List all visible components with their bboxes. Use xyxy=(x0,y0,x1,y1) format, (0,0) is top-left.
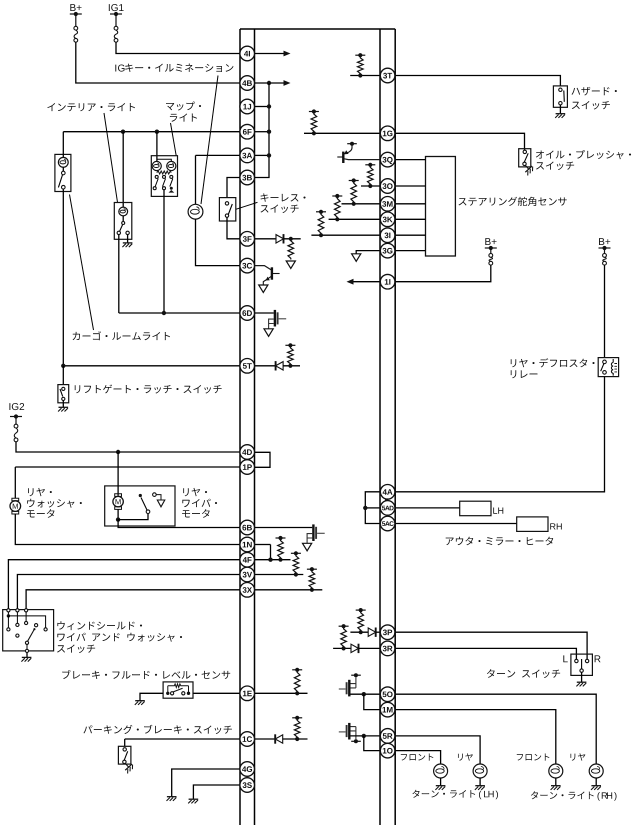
wire cargo lamp to contact xyxy=(62,167,64,171)
wire LH rear lamp to ground xyxy=(479,778,481,786)
ground LH rear turn light xyxy=(475,786,485,790)
wiper switch inner feed wire xyxy=(8,616,45,628)
junction 4B rail xyxy=(267,81,271,85)
connector pin 3M xyxy=(380,197,395,212)
resistor R5 pull-up 3X xyxy=(307,567,317,592)
liftgate switch contacts xyxy=(62,387,65,400)
label keyless line1 xyxy=(261,193,306,201)
label keyless line2 xyxy=(261,204,299,213)
wire wiper junction to pivot xyxy=(118,514,148,520)
wire 5R xyxy=(351,735,381,737)
motor rear wiper xyxy=(113,494,123,510)
connector pin 3B xyxy=(240,170,255,185)
label wiper switch line3 xyxy=(57,644,95,653)
lamp turn light LH front xyxy=(434,764,448,778)
map light bottom contacts xyxy=(153,187,165,190)
wire IG2 to 4D xyxy=(16,442,240,452)
turn switch contacts xyxy=(575,659,589,672)
label turn light RH xyxy=(531,791,617,800)
label rear washer line2 xyxy=(27,499,82,508)
transistor Q1 at 3C xyxy=(255,266,280,285)
wire 3T left xyxy=(350,75,380,77)
power feed B+ for defroster relay xyxy=(599,238,611,253)
turn switch xyxy=(571,654,593,675)
junction block bus cap xyxy=(240,28,395,30)
label oil pressure line1 xyxy=(536,150,631,159)
junction wiper motor on 4D xyxy=(116,450,120,454)
wiper switch top contacts xyxy=(7,609,28,612)
wire 1P to washer motor xyxy=(14,467,16,498)
wire sensor to ground xyxy=(140,693,163,700)
wire 6F to map light xyxy=(156,132,158,162)
wire 3O left xyxy=(361,185,380,187)
rear defroster relay xyxy=(598,358,618,377)
wire 6F to cargo lamp xyxy=(62,132,64,158)
label rear LH xyxy=(458,753,473,760)
relay coil xyxy=(612,359,614,376)
wire 3S to ground xyxy=(193,785,240,799)
wire 5AC to RH heater xyxy=(395,523,517,525)
wire interior lamp to lever xyxy=(122,216,124,222)
bridge 4D to 1P xyxy=(255,452,271,467)
lamp cargo room light xyxy=(58,157,68,167)
wiper park contact dot xyxy=(139,494,142,497)
junction interior light xyxy=(121,130,125,134)
lamp turn light RH front xyxy=(549,764,563,778)
label rear wiper line3 xyxy=(182,509,210,518)
lamp turn light LH rear xyxy=(473,764,487,778)
resistor R4 pull-up 3V xyxy=(291,551,301,576)
label rear washer line3 xyxy=(27,509,55,518)
leader line to keyless switch xyxy=(236,202,258,209)
wire 4I output xyxy=(255,53,284,55)
map light resistor squiggle xyxy=(157,171,172,174)
wiper switch inner wire 4 xyxy=(25,612,27,621)
label L xyxy=(563,655,567,662)
label IG2 xyxy=(9,403,24,410)
wire 5T right xyxy=(255,365,276,367)
leader line to interior light xyxy=(104,113,118,202)
resistor R9 pull-up 1G xyxy=(309,109,319,135)
stub 3A right xyxy=(255,154,270,156)
parking brake lever xyxy=(124,751,128,760)
wiper park switch lever xyxy=(141,498,147,511)
ground hazard switch xyxy=(555,114,565,118)
wire B+ to defroster relay xyxy=(604,265,606,358)
dot between 4A and 5AD xyxy=(385,498,388,501)
wiper park arrow symbol xyxy=(156,495,161,500)
sensor switch xyxy=(166,686,190,695)
resistor R15 pull-up 3R xyxy=(339,624,349,650)
connector pin 6F xyxy=(240,124,255,139)
wire LH front lamp to ground xyxy=(440,778,442,786)
ground oil pressure switch xyxy=(522,162,535,175)
map light lever 1 xyxy=(155,179,158,187)
interior light switch lever xyxy=(120,224,123,231)
output transistor at 5R xyxy=(339,723,361,743)
wire 1E right xyxy=(255,692,308,694)
junction cargo light / liftgate xyxy=(61,364,65,368)
connector pin 1M xyxy=(380,702,395,717)
label rear wiper line2 xyxy=(182,499,217,507)
rail 4B to 3B xyxy=(255,83,270,178)
connector pin 3R xyxy=(380,641,395,656)
hazard switch contacts xyxy=(559,88,562,105)
parking brake switch xyxy=(118,746,130,764)
arrow 4B xyxy=(284,80,291,86)
wire 3T to hazard switch xyxy=(395,76,560,86)
wire 6F xyxy=(63,131,240,133)
resistor R12 pull-up 3K xyxy=(332,194,342,222)
wire 1C right xyxy=(255,738,276,740)
connector pin 1G xyxy=(380,126,395,141)
resistor R1 below 3F xyxy=(288,237,294,260)
ground liftgate switch xyxy=(58,407,68,411)
label wiper switch line1 xyxy=(57,621,142,630)
wire washer motor to 1N xyxy=(15,514,240,545)
keyless switch xyxy=(219,198,235,221)
connector pin 1O xyxy=(380,743,395,758)
wire 4G to ground xyxy=(172,769,240,797)
label IG key illumination xyxy=(115,63,233,72)
power feed IG2 xyxy=(10,414,22,424)
ground 3F resistor xyxy=(286,261,295,269)
wire turn switch to ground xyxy=(581,672,583,682)
connector pin 5R xyxy=(380,729,395,744)
wire 3K left xyxy=(329,218,380,220)
wire hazard switch to ground xyxy=(559,105,561,114)
wire 3A to illumination lamp xyxy=(195,155,197,204)
stub 5AD left xyxy=(365,507,380,509)
map light switch contacts xyxy=(155,175,173,178)
wiper switch common wire xyxy=(26,644,28,649)
leader line to illumination lamp xyxy=(201,76,218,205)
liftgate latch switch xyxy=(58,385,69,403)
junction map light on 6D xyxy=(162,311,166,315)
junction map light xyxy=(155,130,159,134)
oil pressure switch lever xyxy=(524,153,528,162)
power feed IG1 xyxy=(109,4,124,26)
label map light line1 xyxy=(166,101,201,110)
label hazard line2 xyxy=(572,101,610,110)
oil pressure switch contacts xyxy=(523,150,527,165)
wire 4D to wiper motor xyxy=(117,452,119,496)
ground brake fluid sensor xyxy=(135,701,145,705)
connector pin 3O xyxy=(380,179,395,194)
leader line to cargo light xyxy=(70,195,94,331)
power feed B+ top-left connector xyxy=(74,26,78,42)
ground RH rear turn light xyxy=(591,786,601,790)
power feed B+ top-left xyxy=(70,4,82,26)
resistor R8 pull-up 3T xyxy=(355,53,365,77)
cargo light switch contacts xyxy=(62,171,66,189)
power feed IG1 connector xyxy=(114,26,118,42)
label R xyxy=(595,655,601,662)
wire cargo light to 5T xyxy=(62,189,64,366)
resistor R2 pull-up 5T xyxy=(285,343,295,368)
junction 5O/1M xyxy=(362,692,366,696)
bracket 4A group xyxy=(365,492,380,524)
relay contacts xyxy=(603,360,607,374)
connector pin 4D xyxy=(240,445,255,460)
ground RH front turn light xyxy=(551,786,561,790)
label LH xyxy=(493,508,503,514)
connector pin 3S xyxy=(240,778,255,793)
label defroster relay line2 xyxy=(511,370,538,378)
wire 3G to steering sensor xyxy=(395,250,425,252)
label defroster relay line1 xyxy=(511,358,595,367)
ground 3C transistor xyxy=(259,285,268,293)
wire 3I to steering sensor xyxy=(395,234,425,236)
wire 1O to LH front turn light xyxy=(395,751,440,765)
label front RH xyxy=(517,753,550,760)
resistor R13 pull-up 3I xyxy=(316,210,326,238)
wire 6D right xyxy=(255,312,274,314)
power feed B+ for defroster relay connector xyxy=(603,254,607,266)
wire 3R to turn switch L xyxy=(395,648,576,659)
ground 4G xyxy=(167,797,177,801)
connector pin 4B xyxy=(240,76,255,91)
label outer mirror heater xyxy=(446,537,553,546)
resistor R14 pull-up 3P xyxy=(356,608,366,634)
label parking brake switch xyxy=(83,725,231,734)
wire liftgate switch to ground xyxy=(62,401,64,408)
diode D5 at 3R xyxy=(351,644,359,653)
map light unit xyxy=(151,156,177,197)
connector pin 4G xyxy=(240,762,255,777)
turn switch lever xyxy=(581,659,583,669)
connector pin 1J xyxy=(240,99,255,114)
map light lever 2 xyxy=(163,179,166,187)
output transistor at 6D xyxy=(269,310,287,329)
connector pin 1P xyxy=(240,460,255,475)
liftgate switch lever xyxy=(60,389,63,397)
oil pressure switch xyxy=(519,149,531,167)
map light inner rail xyxy=(157,159,171,161)
hazard switch xyxy=(553,86,567,107)
left bus inner line xyxy=(254,29,256,825)
label front LH xyxy=(401,753,434,760)
ground LH front turn light xyxy=(435,786,445,790)
label rear RH xyxy=(570,753,585,760)
wire 6F to interior lamp xyxy=(122,132,124,208)
relay lever xyxy=(601,363,604,371)
connector pin 3V xyxy=(240,567,255,582)
diode D4 at 3P xyxy=(368,628,376,637)
junction 1J rail xyxy=(267,104,271,108)
wire 3V to wiper switch xyxy=(17,575,240,611)
label turn switch xyxy=(487,669,560,678)
label turn light LH xyxy=(412,790,498,799)
wire 1C stub xyxy=(283,738,308,740)
map light door tick xyxy=(170,187,173,190)
power feed B+ for 1I connector xyxy=(489,254,493,266)
junction 5R/1O xyxy=(362,734,366,738)
wire wiper motor to 6B xyxy=(118,520,240,528)
junction 4A bracket xyxy=(363,506,367,510)
wiper switch inner dot xyxy=(7,614,10,617)
wire relay to 4A xyxy=(395,377,604,492)
wire 3X to wiper switch xyxy=(26,590,240,611)
wire wiper switch to ground xyxy=(26,653,28,658)
label RH xyxy=(550,523,562,529)
connector pin 1C xyxy=(240,732,255,747)
label hazard line1 xyxy=(572,87,617,96)
interior light unit xyxy=(114,203,132,240)
wire map light to 6D xyxy=(163,190,165,313)
wire 3M left xyxy=(342,203,381,205)
diode D3 at 1C xyxy=(275,734,283,743)
connector pin 5AC xyxy=(380,516,395,531)
connector pin 5AD xyxy=(380,501,395,516)
connector pin 1I xyxy=(380,274,395,289)
wire B+ to 1I xyxy=(395,265,491,282)
wire 3F right xyxy=(255,238,277,240)
wire 3O to steering sensor xyxy=(395,185,425,187)
stub 6F right xyxy=(255,131,270,133)
output transistor at 6B xyxy=(307,524,325,543)
wire 5O to RH rear turn light xyxy=(395,694,596,764)
label map light line2 xyxy=(170,113,197,121)
resistor R3 pull-up 4F xyxy=(276,536,286,562)
wire RH front lamp to ground xyxy=(555,778,557,786)
ground interior light xyxy=(122,243,132,247)
resistor R11 pull-up 3M xyxy=(349,178,359,206)
connector pin 3K xyxy=(380,212,395,227)
lamp turn light RH rear xyxy=(589,764,603,778)
lamp map light right xyxy=(167,161,176,170)
wire 1E xyxy=(193,692,240,694)
connector pin 4A xyxy=(380,485,395,500)
wire 3R to bus xyxy=(359,647,381,649)
wire 1P xyxy=(15,466,240,468)
wire wiper motor to junction xyxy=(117,509,119,519)
ground 3S xyxy=(188,799,198,803)
cargo room light SW1 xyxy=(55,154,71,191)
diode D1 at 3F xyxy=(276,234,284,243)
connector pin 3I xyxy=(380,228,395,243)
connector pin 1N xyxy=(240,537,255,552)
wire 1G to oil pressure switch xyxy=(395,133,524,150)
wiper switch lever xyxy=(28,628,35,641)
wire 4B output xyxy=(255,82,284,84)
label cargo room light xyxy=(73,331,170,340)
bracket 1N to 4F xyxy=(270,545,272,560)
connector pin 5T xyxy=(240,359,255,374)
wire 3K to steering sensor xyxy=(395,218,425,220)
label interior light xyxy=(47,103,135,111)
wire 3P to bus xyxy=(376,631,380,633)
wire 3M to steering sensor xyxy=(395,203,425,205)
wire 1M to RH front turn light xyxy=(395,710,556,765)
wire 3F stub xyxy=(284,238,301,240)
wire 1C xyxy=(125,738,240,740)
steering angle sensor xyxy=(426,157,456,257)
right bus inner line xyxy=(379,29,381,825)
label liftgate latch switch xyxy=(75,385,222,394)
keyless switch contacts xyxy=(225,202,228,218)
label rear washer line1 xyxy=(28,488,52,496)
wire 3B to keyless switch xyxy=(227,178,240,198)
wiper switch inner wire 3 xyxy=(16,612,18,623)
bridge 5O to 1M xyxy=(364,694,380,709)
wire RH rear lamp to ground xyxy=(595,778,597,786)
wire 3G left xyxy=(356,251,380,254)
brake fluid level sensor xyxy=(163,682,193,698)
wire 6B right xyxy=(255,527,313,529)
power feed B+ for 1I xyxy=(485,238,497,253)
right bus outer line xyxy=(394,29,396,825)
wire 5AD to LH heater xyxy=(395,507,460,509)
resistor R7 pull-up 1C xyxy=(292,716,302,741)
wire 1I left xyxy=(353,281,380,283)
label oil pressure line2 xyxy=(536,161,574,170)
connector pin 3T xyxy=(380,68,395,83)
lamp map light left xyxy=(152,161,161,170)
arrow 4I xyxy=(284,51,291,57)
bridge 5R to 1O xyxy=(364,736,380,751)
ground wiper switch xyxy=(21,657,31,661)
connector pin 6D xyxy=(240,306,255,321)
leader line to map light xyxy=(171,123,177,156)
resistor R10 pull-up 3O xyxy=(365,163,375,188)
wire 3V right xyxy=(255,574,304,576)
wire 5O xyxy=(351,693,381,695)
wire IG1 to 4I xyxy=(116,42,240,53)
wiper park switch contacts xyxy=(146,493,156,514)
label steering angle sensor xyxy=(459,197,567,206)
wire 1C to parking switch xyxy=(124,739,126,746)
connector pin 3F xyxy=(240,232,255,247)
outer mirror heater RH xyxy=(517,517,548,532)
map light lever 3 xyxy=(170,179,173,187)
wire 4F to wiper switch xyxy=(8,560,240,611)
hazard switch lever xyxy=(563,91,566,102)
transistor Q2 at 3Q xyxy=(337,142,380,163)
ground turn switch xyxy=(576,682,586,686)
diode D2 at 5T xyxy=(276,361,284,370)
wiper switch inner wire 2 xyxy=(7,616,9,628)
ground 6B transistor xyxy=(303,543,312,551)
resistor R6 pull-up 1E xyxy=(292,668,302,696)
wire 3C xyxy=(196,219,241,266)
wire 5R to LH rear turn light xyxy=(395,736,480,764)
wire 4F right xyxy=(255,559,291,561)
junction 1N on 4F xyxy=(268,558,272,562)
interior light switch contacts xyxy=(117,222,129,235)
outer mirror heater LH xyxy=(460,501,491,516)
ground parking brake switch xyxy=(121,760,134,773)
wire interior light to 6D xyxy=(118,235,120,313)
wire 3R left xyxy=(333,647,351,649)
wire B+ to 4B xyxy=(76,42,240,83)
output transistor at 5O xyxy=(339,673,361,696)
connector pin 3C xyxy=(240,258,255,273)
junction 6F rail xyxy=(267,130,271,134)
rear wiper motor unit xyxy=(105,486,175,526)
wire 3I left xyxy=(311,234,380,236)
ground 3G xyxy=(352,254,361,261)
connector pin 4I xyxy=(240,46,255,61)
wire 1G left xyxy=(304,132,380,134)
junction wiper motor bottom xyxy=(116,517,120,521)
sensor parallel resistor xyxy=(168,684,189,688)
wire 3X right xyxy=(255,589,323,591)
wire 1N right xyxy=(255,544,271,546)
cargo light switch lever xyxy=(58,175,62,188)
arrow 1I xyxy=(347,279,354,285)
wire 5T to liftgate switch xyxy=(62,366,64,385)
